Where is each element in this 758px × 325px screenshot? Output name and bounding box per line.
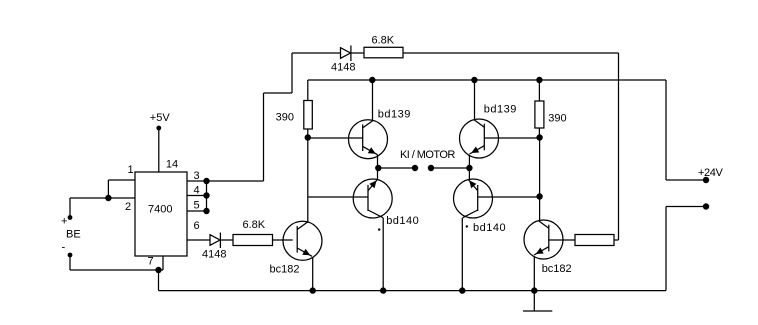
svg-text:2: 2 (125, 201, 131, 213)
wire D2 cathode to 6.8K (220, 239, 233, 241)
wire left 390 bottom to node (307, 129, 309, 138)
wire to right bd139 base (484, 137, 539, 139)
wire pin 3 stub (187, 180, 207, 182)
wire to right bd140 base (478, 196, 540, 198)
wire to +24V terminal dot (666, 179, 706, 181)
wire +V supply rail y=80 (308, 79, 666, 81)
svg-text:-: - (62, 241, 66, 253)
wire left bd140 collector to bottom rail (382, 218, 384, 291)
wire right bc182 base to resistor (548, 239, 575, 241)
wire pin 2 (70, 197, 135, 199)
junction right bd140 base wire on riser (536, 193, 542, 199)
node +24V terminal (703, 177, 709, 183)
wire +5V to pin 14 (158, 128, 160, 172)
wire from pins 3/4/5 node to riser (207, 180, 264, 182)
stray mark near right bd140 label (466, 225, 468, 227)
node motor terminal left (412, 165, 418, 171)
svg-text:4: 4 (193, 185, 199, 197)
svg-text:+24V: +24V (698, 167, 723, 179)
svg-text:6: 6 (193, 220, 199, 232)
wire jog at y=93 (264, 92, 293, 94)
wire to left bd139 base (308, 137, 363, 139)
node motor terminal right (428, 165, 434, 171)
resistor (right base, unlabeled) (575, 235, 614, 246)
wire node riser down to left bc182 collector (307, 138, 309, 223)
junction left bc182 emitter on rail (310, 287, 316, 293)
junction pin 7 / ground net (155, 267, 161, 273)
wire pin 7 stub (162, 256, 164, 270)
wire right emitters junction vertical (468, 155, 470, 180)
svg-text:4148: 4148 (331, 62, 355, 74)
junction left 390 / bd139 base / bc182 collector (305, 134, 311, 140)
node BE + terminal (68, 215, 73, 220)
wire riser segment x=292 (291, 53, 293, 93)
svg-text:bd139: bd139 (378, 109, 411, 121)
wire top rail from pins-3/4/5 riser to diode D1 anode (292, 52, 341, 54)
wire motor left lead (378, 167, 415, 169)
wire to left bd140 base (308, 196, 368, 198)
junction pin 4 (203, 192, 209, 198)
resistor 6.8K (left base) (233, 235, 273, 246)
wire pin 4 stub (187, 195, 207, 197)
wire BE- down (69, 255, 71, 270)
junction right motor node (466, 165, 472, 171)
wire BE+ up to pin 2 net (69, 198, 71, 218)
transistor Q6 bc182 (right, NPN) (524, 220, 563, 259)
svg-text:390: 390 (276, 111, 294, 123)
wire pin 1 stub (108, 179, 135, 181)
wire left emitters junction vertical (377, 155, 379, 180)
junction ground / right bc182 emitter on rail (531, 287, 537, 293)
svg-text:14: 14 (166, 159, 178, 171)
wire left bc182 emitter to bottom rail (312, 258, 314, 291)
wire left bd139 collector (372, 80, 374, 121)
diode D2 1N4148 (pin 6) (210, 233, 220, 249)
wire +V rail to right 390 resistor top (538, 80, 540, 101)
wire BE- to pin 7 (70, 269, 163, 271)
junction right 390 top on +V rail (536, 77, 542, 83)
svg-text:bd139: bd139 (484, 104, 517, 116)
svg-text:3: 3 (193, 170, 199, 182)
wire from output terminal down to bottom rail (665, 207, 667, 291)
junction pin 5 (203, 208, 209, 214)
svg-text:1: 1 (128, 164, 134, 176)
wire riser segment x=263.5 (263, 93, 265, 181)
node output terminal (supply return) (703, 203, 709, 209)
wire right edge down to +24V terminal (665, 80, 667, 180)
resistor 390 (right) (535, 101, 544, 128)
wire right riser x=618.5 down to base resistor (618, 53, 620, 240)
transistor Q4 bd140 (right, PNP) (454, 179, 493, 218)
junction pin 1 / pin 2 tie (105, 195, 111, 201)
svg-text:bc182: bc182 (270, 264, 300, 276)
wire +V rail to left 390 resistor top (307, 80, 309, 101)
svg-text:bd140: bd140 (386, 215, 419, 227)
junction left motor node (375, 165, 381, 171)
node BE - terminal (68, 253, 73, 258)
transistor Q2 bd139 (right, NPN) (460, 119, 499, 158)
transistor Q5 bc182 (left, NPN) (283, 221, 322, 260)
wire 6.8K to left bc182 base (273, 239, 293, 241)
svg-text:bd140: bd140 (473, 222, 506, 234)
ground stem (533, 291, 535, 311)
stray mark near left bd140 label (378, 228, 380, 230)
transistor Q3 bd140 (left, PNP) (353, 179, 392, 218)
wire right bd139 collector (474, 80, 476, 121)
node +5V terminal (156, 126, 161, 131)
junction left bd139 collector on +V rail (369, 77, 375, 83)
svg-text:bc182: bc182 (542, 263, 572, 275)
wire pin 6 stub to D2 anode (187, 239, 210, 241)
wire bottom ground rail y=290 (159, 290, 667, 292)
svg-text:+5V: +5V (150, 112, 171, 124)
junction right bd140 collector on rail (459, 287, 465, 293)
op-amp U1 7400 quad NAND IC body (135, 172, 187, 256)
wire jog to unlabeled base resistor (614, 239, 619, 241)
svg-text:5: 5 (193, 200, 199, 212)
svg-text:4148: 4148 (202, 249, 226, 261)
wire right bd140 collector to bottom rail (461, 218, 463, 291)
svg-text:BE: BE (66, 229, 81, 241)
svg-text:7400: 7400 (148, 204, 172, 216)
diode D1 1N4148 (top) (341, 46, 351, 62)
junction right 390 / bd139 base / bc182 collector (536, 134, 542, 140)
resistor 6.8K (top) (364, 47, 403, 58)
wire pin 1 riser (107, 180, 109, 198)
wire pin 5 stub (187, 210, 207, 212)
svg-text:6.8K: 6.8K (243, 219, 266, 231)
junction left bd140 collector on rail (380, 287, 386, 293)
wire D1 cathode to 6.8K (351, 52, 364, 54)
ground bar (523, 310, 552, 312)
resistor 390 (left) (304, 101, 313, 130)
svg-text:6.8K: 6.8K (372, 35, 395, 47)
svg-text:7: 7 (147, 256, 153, 268)
svg-text:390: 390 (548, 112, 566, 124)
transistor Q1 bd139 (left, NPN) (349, 120, 388, 159)
junction pin 3 (203, 178, 209, 184)
wire node riser down to right bc182 collector (539, 138, 541, 222)
svg-text:+: + (61, 215, 67, 227)
wire second output terminal (666, 206, 706, 208)
wire right bc182 emitter to bottom rail (533, 257, 535, 291)
wire top rail from 6.8K to right riser (403, 52, 619, 54)
junction right bd139 collector on +V rail (471, 77, 477, 83)
wire motor right lead (431, 167, 469, 169)
wire right 390 bottom to node (538, 128, 540, 138)
wire pin 7 node to bottom rail (158, 270, 160, 291)
wire tying pins 3/4/5 (206, 181, 208, 211)
svg-text:KI / MOTOR: KI / MOTOR (400, 149, 455, 161)
